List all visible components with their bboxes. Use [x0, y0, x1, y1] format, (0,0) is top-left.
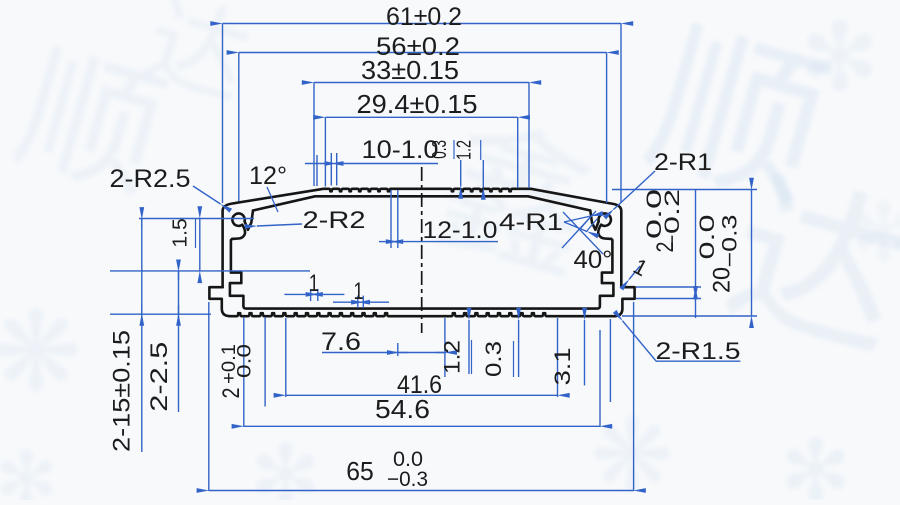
svg-text:0.3: 0.3 [429, 140, 451, 159]
svg-text:−0.3: −0.3 [719, 215, 742, 268]
svg-text:2: 2 [218, 388, 245, 399]
svg-text:2-15±0.15: 2-15±0.15 [109, 330, 136, 452]
svg-text:1.5: 1.5 [170, 218, 192, 247]
svg-text:33±0.15: 33±0.15 [361, 55, 459, 85]
svg-text:0.0: 0.0 [696, 215, 719, 260]
40 deg angle marks [562, 211, 596, 248]
dim 1.2 top arrow [482, 160, 484, 188]
svg-text:2-R1.5: 2-R1.5 [656, 338, 741, 365]
svg-text:✻: ✻ [250, 429, 321, 500]
dim 1 (rib a) [284, 293, 310, 295]
dim 1.5 line [199, 219, 201, 271]
dim 2-15±0.15 line [141, 219, 143, 453]
vertical centerline [421, 167, 423, 333]
svg-text:65: 65 [346, 456, 374, 486]
dim 61±0.2 [223, 23, 622, 25]
dim 65 [209, 490, 634, 492]
svg-text:12-1.0: 12-1.0 [423, 217, 498, 244]
svg-text:✻: ✻ [800, 5, 880, 111]
leader 2-R1 [614, 171, 656, 210]
svg-text:20: 20 [709, 267, 736, 293]
svg-text:2-R2: 2-R2 [303, 207, 366, 234]
leader 4-R1 [564, 216, 591, 222]
dim 20 -0.0/-0.3 [751, 190, 753, 316]
dim 56±0.2 [239, 52, 607, 54]
svg-text:12°: 12° [249, 162, 287, 190]
ext lines bottom [243, 317, 245, 427]
dimension texts [109, 3, 742, 491]
dim 1 (rib b) [333, 301, 358, 303]
ext line y270.9 [110, 270, 310, 272]
svg-text:✻: ✻ [780, 424, 851, 500]
svg-text:40°: 40° [574, 246, 613, 274]
svg-text:✻: ✻ [0, 437, 58, 500]
dim 41.6 [286, 394, 558, 396]
leader 12 deg [267, 187, 278, 212]
svg-text:0.3: 0.3 [481, 341, 506, 377]
svg-text:0.0: 0.0 [235, 344, 256, 378]
svg-text:−0.3: −0.3 [387, 468, 428, 491]
svg-text:2-2.5: 2-2.5 [146, 342, 173, 412]
svg-text:2-R1: 2-R1 [654, 149, 712, 176]
dim 54.6 [244, 425, 600, 427]
leader 2-R2 [257, 224, 302, 226]
svg-text:−0.2: −0.2 [661, 189, 684, 253]
ext line keyhole center [139, 218, 254, 220]
dimension lines [110, 24, 757, 492]
dim 10-1.0 [305, 163, 331, 165]
dim 7.6 [322, 352, 446, 354]
svg-text:1: 1 [354, 278, 364, 305]
leader 2-R2.5 [193, 186, 221, 204]
svg-text:4-R1: 4-R1 [499, 209, 563, 236]
dim 1.2 bottom [468, 320, 470, 374]
dim 2-2.5 line [178, 271, 180, 412]
dim 2 -0.0/-0.2 [695, 190, 697, 287]
ext line y314.2 [110, 313, 211, 315]
svg-text:❋: ❋ [0, 291, 82, 414]
svg-text:2-R2.5: 2-R2.5 [110, 165, 191, 193]
svg-text:7.6: 7.6 [321, 328, 361, 356]
ticks rib dims [310, 289, 312, 301]
dim 0.3 top arrow [460, 160, 462, 187]
svg-text:1.2: 1.2 [454, 140, 476, 160]
ticks 7.6 [397, 343, 399, 356]
leader chamfer 1 [629, 266, 640, 280]
svg-text:10-1.0: 10-1.0 [362, 136, 439, 164]
svg-text:1: 1 [309, 270, 319, 297]
ext lines top [222, 24, 224, 204]
svg-text:1.2: 1.2 [440, 340, 465, 374]
svg-text:3.1: 3.1 [550, 347, 575, 385]
dim 3.1 [584, 320, 586, 385]
svg-text:61±0.2: 61±0.2 [386, 3, 462, 31]
svg-text:✻: ✻ [850, 188, 900, 277]
aluminum profile outline [209, 189, 634, 316]
leader 2-R1.5 [623, 321, 657, 361]
svg-text:❋: ❋ [590, 400, 674, 500]
dim 12-1.0 [379, 241, 391, 243]
dim 0.3 bottom [518, 320, 520, 377]
dim 33±0.15 [314, 82, 529, 84]
svg-text:54.6: 54.6 [375, 394, 430, 424]
svg-text:29.4±0.15: 29.4±0.15 [357, 89, 478, 119]
dim 29.4±0.15 [325, 116, 517, 118]
